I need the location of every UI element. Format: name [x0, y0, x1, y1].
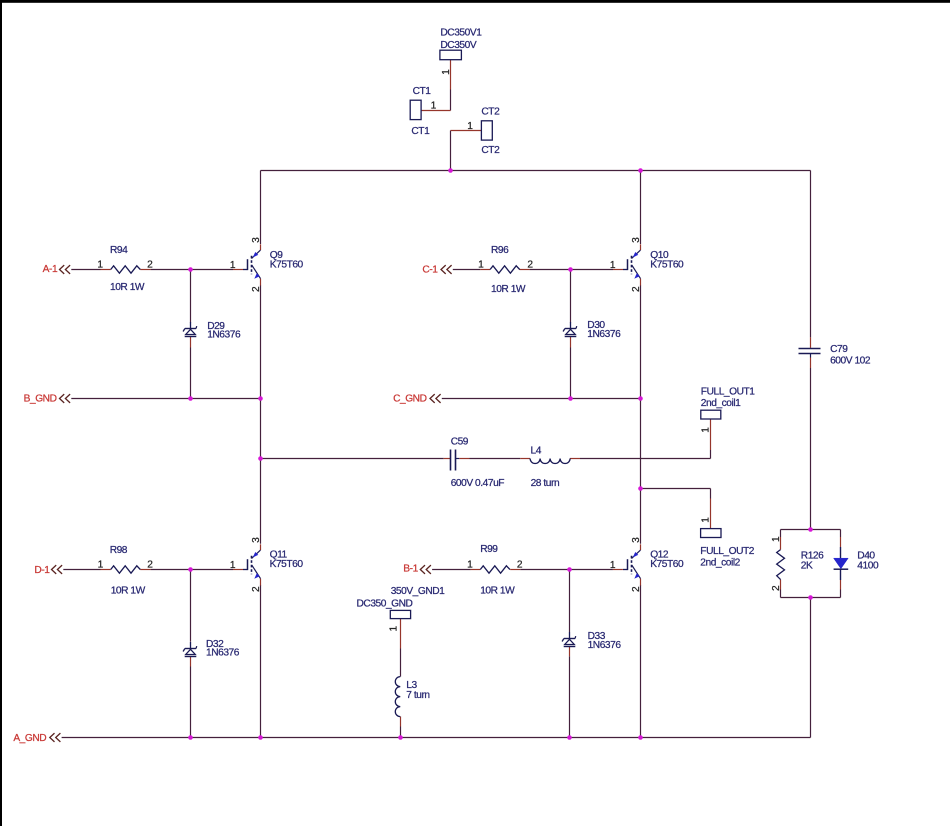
svg-text:DC350_GND: DC350_GND — [357, 599, 413, 610]
svg-text:1: 1 — [701, 517, 712, 523]
svg-text:1: 1 — [98, 559, 104, 570]
svg-text:B_GND: B_GND — [24, 393, 57, 404]
svg-text:K75T60: K75T60 — [650, 259, 684, 270]
svg-text:A_GND: A_GND — [13, 733, 46, 744]
svg-text:1: 1 — [467, 121, 473, 132]
svg-text:3: 3 — [631, 537, 642, 543]
svg-text:C_GND: C_GND — [393, 394, 427, 405]
svg-text:2: 2 — [517, 560, 523, 571]
svg-text:R98: R98 — [110, 545, 128, 556]
svg-text:10R 1W: 10R 1W — [491, 284, 526, 295]
svg-text:4100: 4100 — [857, 561, 879, 572]
svg-text:B-1: B-1 — [403, 564, 418, 575]
svg-text:C-1: C-1 — [422, 264, 438, 275]
svg-text:2: 2 — [771, 585, 782, 591]
svg-text:1N6376: 1N6376 — [587, 329, 621, 340]
svg-text:3: 3 — [631, 237, 642, 243]
svg-text:L4: L4 — [531, 445, 542, 456]
svg-text:C79: C79 — [830, 344, 848, 355]
svg-text:R99: R99 — [480, 544, 498, 555]
svg-text:10R 1W: 10R 1W — [110, 282, 145, 293]
svg-text:2: 2 — [251, 586, 262, 592]
svg-text:1: 1 — [441, 69, 452, 75]
svg-text:1N6376: 1N6376 — [206, 648, 240, 659]
svg-text:2nd_coil1: 2nd_coil1 — [701, 398, 741, 409]
svg-text:1: 1 — [610, 560, 616, 571]
svg-text:2: 2 — [147, 259, 153, 270]
svg-text:1: 1 — [230, 260, 236, 271]
svg-text:D-1: D-1 — [34, 565, 50, 576]
svg-text:1: 1 — [431, 101, 437, 112]
svg-text:600V 102: 600V 102 — [830, 356, 871, 367]
svg-text:1: 1 — [701, 427, 712, 433]
svg-text:2: 2 — [251, 286, 262, 292]
svg-text:FULL_OUT1: FULL_OUT1 — [701, 387, 755, 398]
svg-text:2nd_coil2: 2nd_coil2 — [700, 558, 740, 569]
svg-text:R94: R94 — [110, 245, 128, 256]
svg-text:CT2: CT2 — [481, 145, 500, 156]
svg-text:1: 1 — [467, 560, 473, 571]
svg-text:2: 2 — [527, 259, 533, 270]
svg-text:1: 1 — [97, 259, 103, 270]
svg-text:350V_GND1: 350V_GND1 — [391, 586, 445, 597]
svg-text:28 turn: 28 turn — [531, 478, 560, 489]
svg-text:DC350V: DC350V — [440, 40, 476, 51]
svg-text:FULL_OUT2: FULL_OUT2 — [700, 546, 754, 557]
svg-text:1N6376: 1N6376 — [207, 330, 241, 341]
svg-text:C59: C59 — [451, 437, 469, 448]
svg-text:2K: 2K — [801, 561, 813, 572]
svg-text:A-1: A-1 — [43, 264, 58, 275]
svg-text:K75T60: K75T60 — [270, 259, 304, 270]
svg-text:K75T60: K75T60 — [650, 559, 684, 570]
svg-text:1N6376: 1N6376 — [588, 640, 622, 651]
svg-text:1: 1 — [771, 536, 782, 542]
svg-text:600V 0.47uF: 600V 0.47uF — [451, 478, 505, 489]
svg-text:R96: R96 — [491, 245, 509, 256]
svg-text:1: 1 — [478, 259, 484, 270]
svg-text:DC350V1: DC350V1 — [440, 28, 482, 39]
svg-text:3: 3 — [251, 237, 262, 243]
svg-text:1: 1 — [230, 560, 236, 571]
svg-text:CT2: CT2 — [481, 107, 500, 118]
svg-text:7 turn: 7 turn — [406, 690, 429, 701]
svg-text:K75T60: K75T60 — [270, 559, 304, 570]
svg-text:10R 1W: 10R 1W — [111, 586, 146, 597]
svg-text:10R 1W: 10R 1W — [480, 586, 515, 597]
svg-text:CT1: CT1 — [413, 86, 432, 97]
svg-text:2: 2 — [147, 559, 153, 570]
svg-text:2: 2 — [631, 286, 642, 292]
svg-text:1: 1 — [389, 626, 400, 632]
svg-text:1: 1 — [610, 260, 616, 271]
svg-text:3: 3 — [251, 537, 262, 543]
svg-text:CT1: CT1 — [411, 126, 430, 137]
svg-text:2: 2 — [631, 586, 642, 592]
